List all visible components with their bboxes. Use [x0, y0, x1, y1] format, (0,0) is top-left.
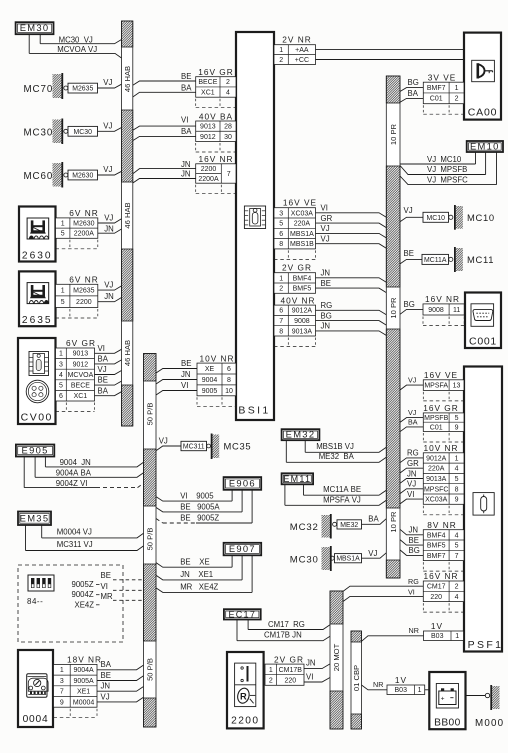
- svg-text:6: 6: [227, 366, 231, 373]
- svg-text:BE 9005A: BE 9005A: [180, 502, 220, 511]
- svg-text:1: 1: [279, 275, 283, 282]
- svg-text:JN: JN: [306, 659, 316, 668]
- svg-text:BA: BA: [98, 386, 109, 395]
- svg-text:VJ: VJ: [408, 375, 417, 384]
- svg-text:50 P/B: 50 P/B: [145, 658, 154, 681]
- svg-text:BMF7: BMF7: [427, 85, 446, 92]
- svg-text:9013A: 9013A: [292, 328, 313, 335]
- svg-text:JN: JN: [104, 225, 114, 234]
- svg-text:46 HAB: 46 HAB: [123, 202, 132, 228]
- svg-text:JN: JN: [181, 160, 191, 169]
- svg-text:M2630: M2630: [72, 173, 93, 180]
- svg-text:BE: BE: [101, 571, 111, 580]
- svg-text:BE: BE: [181, 72, 191, 81]
- svg-text:9012A: 9012A: [426, 455, 447, 462]
- svg-text:8: 8: [279, 328, 283, 335]
- svg-text:BE: BE: [404, 249, 414, 258]
- svg-text:13: 13: [453, 383, 461, 390]
- svg-text:9005Z: 9005Z: [72, 580, 94, 589]
- svg-text:46 HAB: 46 HAB: [123, 66, 132, 92]
- svg-text:MC30: MC30: [74, 129, 93, 136]
- svg-text:VJ MC10: VJ MC10: [427, 155, 462, 164]
- svg-text:VI: VI: [321, 203, 328, 212]
- svg-text:1: 1: [61, 288, 65, 295]
- svg-text:VJ: VJ: [368, 549, 377, 558]
- svg-text:JN: JN: [101, 682, 111, 691]
- svg-text:2: 2: [455, 584, 459, 591]
- svg-text:2: 2: [279, 57, 283, 64]
- svg-text:MC60: MC60: [24, 171, 54, 182]
- svg-text:VJ: VJ: [404, 206, 413, 215]
- svg-text:VJ: VJ: [408, 408, 417, 417]
- svg-text:1: 1: [455, 633, 459, 640]
- svg-text:VJ: VJ: [104, 213, 113, 222]
- svg-text:5: 5: [61, 231, 65, 238]
- svg-text:MCVOA: MCVOA: [68, 372, 94, 379]
- svg-text:16V NR: 16V NR: [425, 294, 460, 304]
- svg-text:BMF4: BMF4: [293, 275, 312, 282]
- svg-text:BMF7: BMF7: [427, 553, 446, 560]
- svg-text:CV00: CV00: [21, 412, 53, 424]
- svg-text:46 HAB: 46 HAB: [123, 340, 132, 366]
- svg-text:40V BA: 40V BA: [199, 111, 233, 121]
- svg-text:XC1: XC1: [74, 393, 88, 400]
- svg-text:M000: M000: [475, 718, 504, 729]
- svg-text:220: 220: [430, 594, 442, 601]
- svg-text:3: 3: [60, 678, 64, 685]
- svg-text:8V NR: 8V NR: [427, 520, 456, 530]
- svg-text:VJ: VJ: [98, 365, 107, 374]
- svg-text:RG: RG: [407, 449, 419, 458]
- svg-text:5: 5: [59, 383, 63, 390]
- svg-text:BE 9005Z: BE 9005Z: [180, 513, 219, 522]
- svg-text:2: 2: [279, 286, 283, 293]
- svg-text:BE: BE: [181, 359, 191, 368]
- svg-text:220A: 220A: [294, 221, 311, 228]
- svg-text:GR: GR: [407, 459, 419, 468]
- svg-text:VI 9005: VI 9005: [180, 491, 214, 500]
- svg-text:1: 1: [455, 85, 459, 92]
- svg-text:1V: 1V: [431, 621, 443, 631]
- svg-text:7: 7: [227, 171, 231, 178]
- svg-text:BE: BE: [321, 279, 331, 288]
- svg-text:XE1: XE1: [77, 689, 90, 696]
- svg-text:MC30: MC30: [290, 555, 319, 566]
- svg-text:6V NR: 6V NR: [69, 208, 98, 218]
- svg-text:5: 5: [455, 476, 459, 483]
- svg-text:BG: BG: [404, 300, 415, 309]
- svg-text:XE4Z: XE4Z: [75, 600, 95, 609]
- svg-text:VJ: VJ: [321, 224, 330, 233]
- svg-text:MC11A: MC11A: [424, 257, 447, 264]
- svg-text:7: 7: [279, 318, 283, 325]
- svg-text:6V NR: 6V NR: [69, 275, 98, 285]
- svg-text:E906: E906: [229, 477, 256, 488]
- svg-text:10V NR: 10V NR: [423, 443, 458, 453]
- svg-text:4: 4: [455, 594, 459, 601]
- svg-text:BG: BG: [408, 78, 419, 87]
- svg-text:3: 3: [59, 361, 63, 368]
- svg-text:BMF4: BMF4: [427, 532, 446, 539]
- svg-text:1: 1: [269, 667, 273, 674]
- svg-text:2200A: 2200A: [198, 176, 219, 183]
- svg-text:VJ: VJ: [321, 234, 330, 243]
- svg-text:1V: 1V: [395, 675, 407, 685]
- svg-text:0004: 0004: [23, 714, 49, 725]
- svg-text:JN: JN: [181, 370, 191, 379]
- svg-text:84--: 84--: [27, 597, 43, 606]
- svg-text:XC03A: XC03A: [425, 497, 448, 504]
- svg-text:2V GR: 2V GR: [282, 263, 312, 273]
- svg-text:BA: BA: [408, 89, 419, 98]
- svg-text:MBS1A: MBS1A: [336, 556, 360, 563]
- svg-text:JN: JN: [321, 322, 331, 331]
- svg-text:7: 7: [60, 689, 64, 696]
- svg-text:MBS1B: MBS1B: [290, 241, 314, 248]
- svg-text:B03: B03: [395, 687, 408, 694]
- svg-text:VI: VI: [181, 116, 188, 125]
- svg-text:2: 2: [455, 96, 459, 103]
- svg-text:VJ: VJ: [101, 692, 110, 701]
- svg-text:BMF5: BMF5: [293, 286, 312, 293]
- svg-text:VI: VI: [101, 582, 108, 591]
- svg-text:10V NR: 10V NR: [199, 353, 234, 363]
- svg-text:MC10: MC10: [467, 212, 495, 223]
- svg-text:9: 9: [60, 699, 64, 706]
- svg-text:MPSFA: MPSFA: [424, 383, 448, 390]
- svg-text:R: R: [240, 691, 247, 701]
- svg-text:1: 1: [455, 455, 459, 462]
- svg-text:10 PR: 10 PR: [389, 511, 398, 533]
- svg-text:BA: BA: [368, 515, 379, 524]
- svg-text:9013: 9013: [200, 124, 216, 131]
- svg-text:9013: 9013: [73, 351, 89, 358]
- svg-text:50 P/B: 50 P/B: [145, 403, 154, 426]
- svg-text:MR XE4Z: MR XE4Z: [180, 583, 218, 592]
- svg-text:MC11A BE: MC11A BE: [323, 485, 361, 494]
- svg-text:9012A: 9012A: [292, 308, 313, 315]
- svg-text:8: 8: [279, 241, 283, 248]
- svg-text:MC311: MC311: [183, 444, 205, 451]
- svg-text:10: 10: [225, 388, 233, 395]
- svg-text:BA: BA: [101, 660, 112, 669]
- svg-text:9012: 9012: [200, 134, 216, 141]
- svg-text:GR: GR: [321, 214, 333, 223]
- svg-text:C01: C01: [430, 424, 443, 431]
- svg-text:MCVOA VJ: MCVOA VJ: [57, 45, 97, 54]
- svg-text:CM17B: CM17B: [279, 667, 303, 674]
- svg-text:EM10: EM10: [470, 141, 500, 152]
- svg-text:JN: JN: [409, 526, 419, 535]
- svg-text:10 PR: 10 PR: [389, 123, 398, 145]
- svg-text:MC10: MC10: [427, 215, 446, 222]
- svg-text:VJ: VJ: [103, 165, 112, 174]
- svg-text:2200: 2200: [201, 166, 217, 173]
- svg-text:9004A: 9004A: [73, 667, 94, 674]
- svg-text:VJ: VJ: [407, 480, 416, 489]
- svg-text:E905: E905: [22, 445, 49, 456]
- svg-text:BA: BA: [98, 355, 109, 364]
- svg-text:16V NR: 16V NR: [423, 571, 458, 581]
- svg-text:220A: 220A: [428, 466, 445, 473]
- svg-text:9013A: 9013A: [426, 476, 447, 483]
- svg-text:MBS1B VJ: MBS1B VJ: [316, 442, 354, 451]
- svg-text:1: 1: [61, 220, 65, 227]
- svg-text:MC30 VJ: MC30 VJ: [59, 35, 93, 44]
- svg-text:1: 1: [59, 351, 63, 358]
- svg-text:CA00: CA00: [468, 107, 497, 119]
- svg-text:8: 8: [455, 486, 459, 493]
- svg-text:40V NR: 40V NR: [280, 295, 315, 305]
- svg-text:3: 3: [279, 210, 283, 217]
- svg-text:6: 6: [59, 393, 63, 400]
- svg-text:CM17 RG: CM17 RG: [268, 620, 305, 629]
- svg-text:2200A: 2200A: [74, 231, 95, 238]
- svg-text:2V NR: 2V NR: [282, 35, 311, 45]
- svg-text:JN: JN: [104, 292, 114, 301]
- svg-text:BA: BA: [181, 83, 192, 92]
- svg-text:4: 4: [455, 466, 459, 473]
- svg-text:2V GR: 2V GR: [274, 654, 304, 664]
- svg-text:MR: MR: [101, 592, 113, 601]
- svg-text:M0004: M0004: [73, 699, 95, 706]
- svg-text:2635: 2635: [22, 315, 53, 326]
- svg-text:C01: C01: [430, 96, 443, 103]
- svg-text:6V GR: 6V GR: [66, 338, 96, 348]
- svg-text:ME32 BA: ME32 BA: [319, 452, 355, 461]
- svg-text:5: 5: [61, 299, 65, 306]
- svg-text:BA: BA: [408, 417, 418, 426]
- svg-text:BE: BE: [101, 671, 111, 680]
- svg-text:BSI1: BSI1: [238, 405, 270, 417]
- svg-text:6: 6: [279, 308, 283, 315]
- svg-text:+AA: +AA: [295, 47, 309, 54]
- svg-text:JN: JN: [321, 268, 331, 277]
- svg-text:NR: NR: [409, 626, 419, 635]
- svg-text:18V NR: 18V NR: [67, 655, 102, 665]
- svg-text:BE: BE: [98, 376, 108, 385]
- svg-text:BG: BG: [409, 546, 420, 555]
- svg-text:MC11: MC11: [467, 254, 494, 265]
- svg-text:2200: 2200: [231, 716, 259, 727]
- svg-text:EM32: EM32: [286, 429, 316, 440]
- svg-text:VI: VI: [181, 381, 188, 390]
- svg-text:MC70: MC70: [24, 84, 54, 95]
- svg-text:RG: RG: [408, 577, 419, 586]
- svg-text:JN: JN: [181, 170, 191, 179]
- svg-text:BECE: BECE: [71, 383, 90, 390]
- svg-text:VJ: VJ: [103, 78, 112, 87]
- svg-text:2630: 2630: [22, 251, 53, 262]
- svg-text:BMF5: BMF5: [427, 543, 446, 550]
- svg-text:9004A BA: 9004A BA: [56, 469, 92, 478]
- svg-text:50 P/B: 50 P/B: [145, 528, 154, 551]
- svg-text:VJ MPSFB: VJ MPSFB: [427, 165, 467, 174]
- svg-text:16V VE: 16V VE: [283, 198, 317, 208]
- svg-text:28: 28: [224, 124, 232, 131]
- svg-text:VI: VI: [306, 672, 313, 681]
- svg-text:9012: 9012: [73, 361, 89, 368]
- svg-text:VJ MPSFC: VJ MPSFC: [427, 175, 468, 184]
- svg-text:EM30: EM30: [20, 22, 50, 33]
- svg-text:MPSFA VJ: MPSFA VJ: [323, 495, 361, 504]
- svg-text:C001: C001: [469, 336, 497, 348]
- svg-text:9004 JN: 9004 JN: [60, 458, 91, 467]
- svg-text:16V GR: 16V GR: [198, 67, 234, 77]
- svg-text:4: 4: [59, 372, 63, 379]
- svg-text:9004: 9004: [202, 377, 218, 384]
- svg-text:B03: B03: [431, 633, 444, 640]
- svg-text:9: 9: [455, 497, 459, 504]
- svg-text:MPSFC: MPSFC: [424, 486, 449, 493]
- svg-text:BE XE: BE XE: [180, 557, 209, 566]
- svg-text:16V NR: 16V NR: [198, 154, 233, 164]
- svg-text:5: 5: [279, 221, 283, 228]
- svg-text:BB00: BB00: [434, 718, 461, 729]
- svg-text:9004Z VI: 9004Z VI: [56, 479, 88, 488]
- svg-text:20 MOT: 20 MOT: [332, 643, 341, 671]
- svg-text:MC30: MC30: [24, 127, 54, 138]
- svg-text:01 CBP: 01 CBP: [352, 665, 361, 691]
- svg-text:9005A: 9005A: [73, 678, 94, 685]
- svg-text:9: 9: [455, 424, 459, 431]
- svg-text:220: 220: [284, 677, 296, 684]
- svg-text:EC17: EC17: [228, 609, 256, 619]
- svg-text:VJ: VJ: [104, 280, 113, 289]
- svg-text:EM11: EM11: [283, 474, 311, 484]
- svg-text:MC32: MC32: [290, 522, 319, 533]
- svg-text:9008: 9008: [294, 318, 310, 325]
- svg-text:1: 1: [418, 687, 422, 694]
- svg-text:JN XE1: JN XE1: [180, 570, 213, 579]
- svg-text:5: 5: [455, 543, 459, 550]
- svg-text:E907: E907: [229, 543, 256, 554]
- svg-text:8: 8: [227, 377, 231, 384]
- svg-text:3V VE: 3V VE: [428, 72, 457, 82]
- svg-text:1: 1: [60, 667, 64, 674]
- svg-text:M2635: M2635: [73, 288, 95, 295]
- svg-text:+CC: +CC: [295, 57, 309, 64]
- svg-text:NR: NR: [373, 680, 383, 689]
- svg-text:EM35: EM35: [20, 512, 50, 523]
- svg-text:M0004 VJ: M0004 VJ: [57, 528, 92, 537]
- svg-text:BG: BG: [321, 311, 332, 320]
- svg-text:7: 7: [455, 553, 459, 560]
- svg-text:XE: XE: [205, 366, 215, 373]
- svg-text:9005: 9005: [202, 388, 218, 395]
- svg-text:CM17: CM17: [427, 584, 446, 591]
- svg-text:JN: JN: [407, 469, 417, 478]
- svg-text:1: 1: [279, 47, 283, 54]
- svg-text:4: 4: [455, 532, 459, 539]
- svg-text:M2635: M2635: [72, 86, 93, 93]
- svg-text:+: +: [441, 695, 445, 702]
- svg-text:CM17B JN: CM17B JN: [264, 631, 302, 640]
- svg-text:16V GR: 16V GR: [423, 403, 459, 413]
- svg-text:BE: BE: [409, 536, 419, 545]
- svg-text:XC1: XC1: [201, 89, 215, 96]
- svg-text:VI: VI: [408, 588, 415, 597]
- svg-text:6: 6: [279, 231, 283, 238]
- svg-text:VJ: VJ: [159, 437, 168, 446]
- svg-text:BA: BA: [181, 127, 192, 136]
- svg-text:PSF1: PSF1: [468, 639, 504, 651]
- svg-text:ME32: ME32: [340, 522, 358, 529]
- svg-text:VJ: VJ: [103, 121, 112, 130]
- svg-text:11: 11: [453, 307, 460, 314]
- svg-text:RG: RG: [321, 301, 333, 310]
- svg-text:2200: 2200: [76, 299, 92, 306]
- svg-text:9008: 9008: [428, 307, 444, 314]
- svg-text:30: 30: [224, 134, 232, 141]
- svg-text:16V VE: 16V VE: [424, 370, 458, 380]
- svg-text:4: 4: [226, 89, 230, 96]
- svg-text:2: 2: [269, 677, 273, 684]
- svg-text:MC35: MC35: [224, 441, 252, 452]
- svg-text:M2630: M2630: [73, 220, 95, 227]
- svg-text:10 PR: 10 PR: [389, 297, 398, 319]
- svg-text:5: 5: [455, 415, 459, 422]
- svg-text:MBS1A: MBS1A: [290, 231, 314, 238]
- svg-text:VI: VI: [98, 344, 105, 353]
- svg-text:MC311 VJ: MC311 VJ: [57, 540, 93, 549]
- svg-text:2: 2: [226, 79, 230, 86]
- svg-text:BECE: BECE: [198, 79, 217, 86]
- svg-text:XC03A: XC03A: [291, 210, 314, 217]
- svg-text:VI: VI: [407, 490, 414, 499]
- svg-text:MPSFB: MPSFB: [424, 415, 448, 422]
- svg-text:9004Z: 9004Z: [72, 590, 94, 599]
